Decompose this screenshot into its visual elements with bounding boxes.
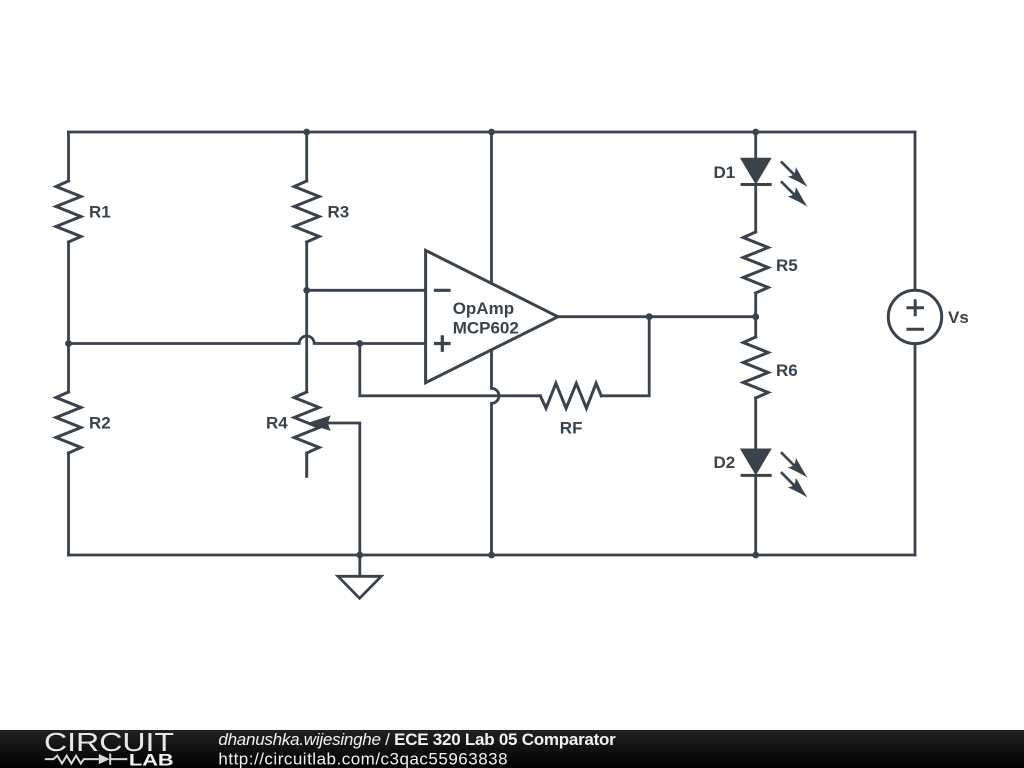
wire left rail middle	[67, 242, 70, 392]
wire minus input	[307, 289, 426, 292]
wire right rail upper	[914, 132, 917, 290]
wire column2 middle	[305, 242, 308, 392]
wire opamp power upper	[490, 132, 493, 283]
resistor R3	[294, 181, 319, 242]
LED D1	[741, 159, 808, 207]
node R5 R6 junction	[752, 313, 759, 320]
wire left rail lower	[67, 453, 70, 555]
node top rail col3	[488, 129, 495, 136]
op-amp U1	[426, 250, 558, 382]
resistor R5	[743, 232, 768, 293]
wire left rail upper	[67, 132, 70, 181]
node top rail col2	[303, 129, 310, 136]
resistor RF	[540, 383, 601, 408]
wire column5 top	[754, 132, 757, 159]
wire top rail	[69, 131, 916, 134]
svg-text:LAB: LAB	[129, 751, 174, 768]
wire output	[558, 315, 756, 318]
footer bar	[0, 730, 1024, 768]
resistor R1	[56, 181, 81, 242]
node feedback junction	[356, 340, 363, 347]
wire D2 to bottom	[754, 475, 757, 555]
wire bottom rail	[69, 554, 916, 557]
wire R4 wiper to ground	[329, 423, 360, 555]
footer title text	[218, 730, 616, 768]
svg-text:MCP602: MCP602	[453, 319, 519, 338]
node bottom rail col5	[752, 552, 759, 559]
node left mid junction	[65, 340, 72, 347]
resistor R6	[743, 337, 768, 398]
svg-text:R4: R4	[266, 414, 288, 433]
wire opamp power lower with hop	[492, 350, 500, 555]
wire R5 to R6	[754, 293, 757, 337]
wire D1 to R5	[754, 185, 757, 233]
svg-text:OpAmp: OpAmp	[453, 299, 514, 318]
svg-text:R3: R3	[328, 203, 350, 222]
node ground junction	[356, 552, 363, 559]
wire plus input with hop	[69, 336, 426, 343]
svg-text:http://circuitlab.com/c3qac559: http://circuitlab.com/c3qac55963838	[218, 750, 508, 768]
node output junction	[646, 313, 653, 320]
node minus junction	[303, 287, 310, 294]
wire feedback	[360, 344, 541, 396]
wire feedback to output	[601, 317, 649, 396]
R4 wiper arrow	[307, 415, 332, 431]
node bottom rail col3	[488, 552, 495, 559]
svg-text:RF: RF	[560, 419, 583, 438]
svg-text:D2: D2	[714, 453, 736, 472]
wire R6 to D2	[754, 398, 757, 449]
CircuitLab logo	[44, 729, 174, 768]
node top rail col5	[752, 129, 759, 136]
voltage source Vs	[888, 290, 941, 343]
resistor R2	[56, 392, 81, 453]
potentiometer R4	[294, 392, 319, 476]
svg-text:dhanushka.wijesinghe / ECE 320: dhanushka.wijesinghe / ECE 320 Lab 05 Co…	[218, 730, 616, 749]
svg-text:R1: R1	[89, 203, 111, 222]
svg-text:Vs: Vs	[948, 308, 969, 327]
svg-text:R5: R5	[776, 256, 798, 275]
LED D2	[741, 449, 808, 497]
svg-text:R2: R2	[89, 414, 111, 433]
ground	[338, 555, 381, 598]
svg-text:D1: D1	[714, 163, 736, 182]
wire column2 top	[305, 132, 308, 181]
svg-text:R6: R6	[776, 361, 798, 380]
wire right rail lower	[914, 344, 917, 555]
